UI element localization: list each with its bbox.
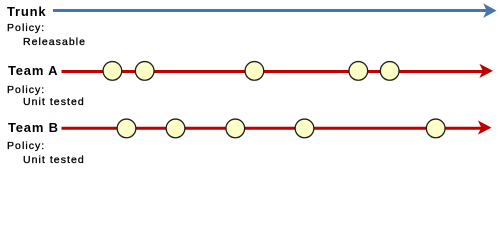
commit circle B5 [426, 119, 445, 138]
team B arrowhead [478, 121, 492, 135]
label Team B [8, 121, 59, 134]
commit circle B4 [295, 119, 314, 138]
commit circle A5 [380, 62, 399, 81]
commit circle A3 [245, 62, 264, 81]
commit circle A2 [135, 62, 154, 81]
team B branch shaft [62, 127, 483, 130]
commit circle B2 [166, 119, 185, 138]
team A arrowhead [479, 64, 493, 78]
commit circle B3 [226, 119, 245, 138]
team A branch shaft [62, 70, 484, 73]
label Unit tested (team A) [23, 97, 85, 108]
label Policy (trunk) [7, 23, 45, 34]
label Policy (team B) [7, 141, 45, 152]
trunk arrowhead [483, 3, 496, 18]
label Team A [8, 64, 58, 77]
trunk timeline shaft [53, 9, 487, 12]
commit circle A1 [103, 62, 122, 81]
commit circle A4 [349, 62, 368, 81]
label Policy (team A) [7, 85, 45, 96]
commit circle B1 [117, 119, 136, 138]
label Trunk [7, 5, 46, 18]
label Unit tested (team B) [23, 155, 85, 166]
label Releasable [23, 37, 86, 48]
